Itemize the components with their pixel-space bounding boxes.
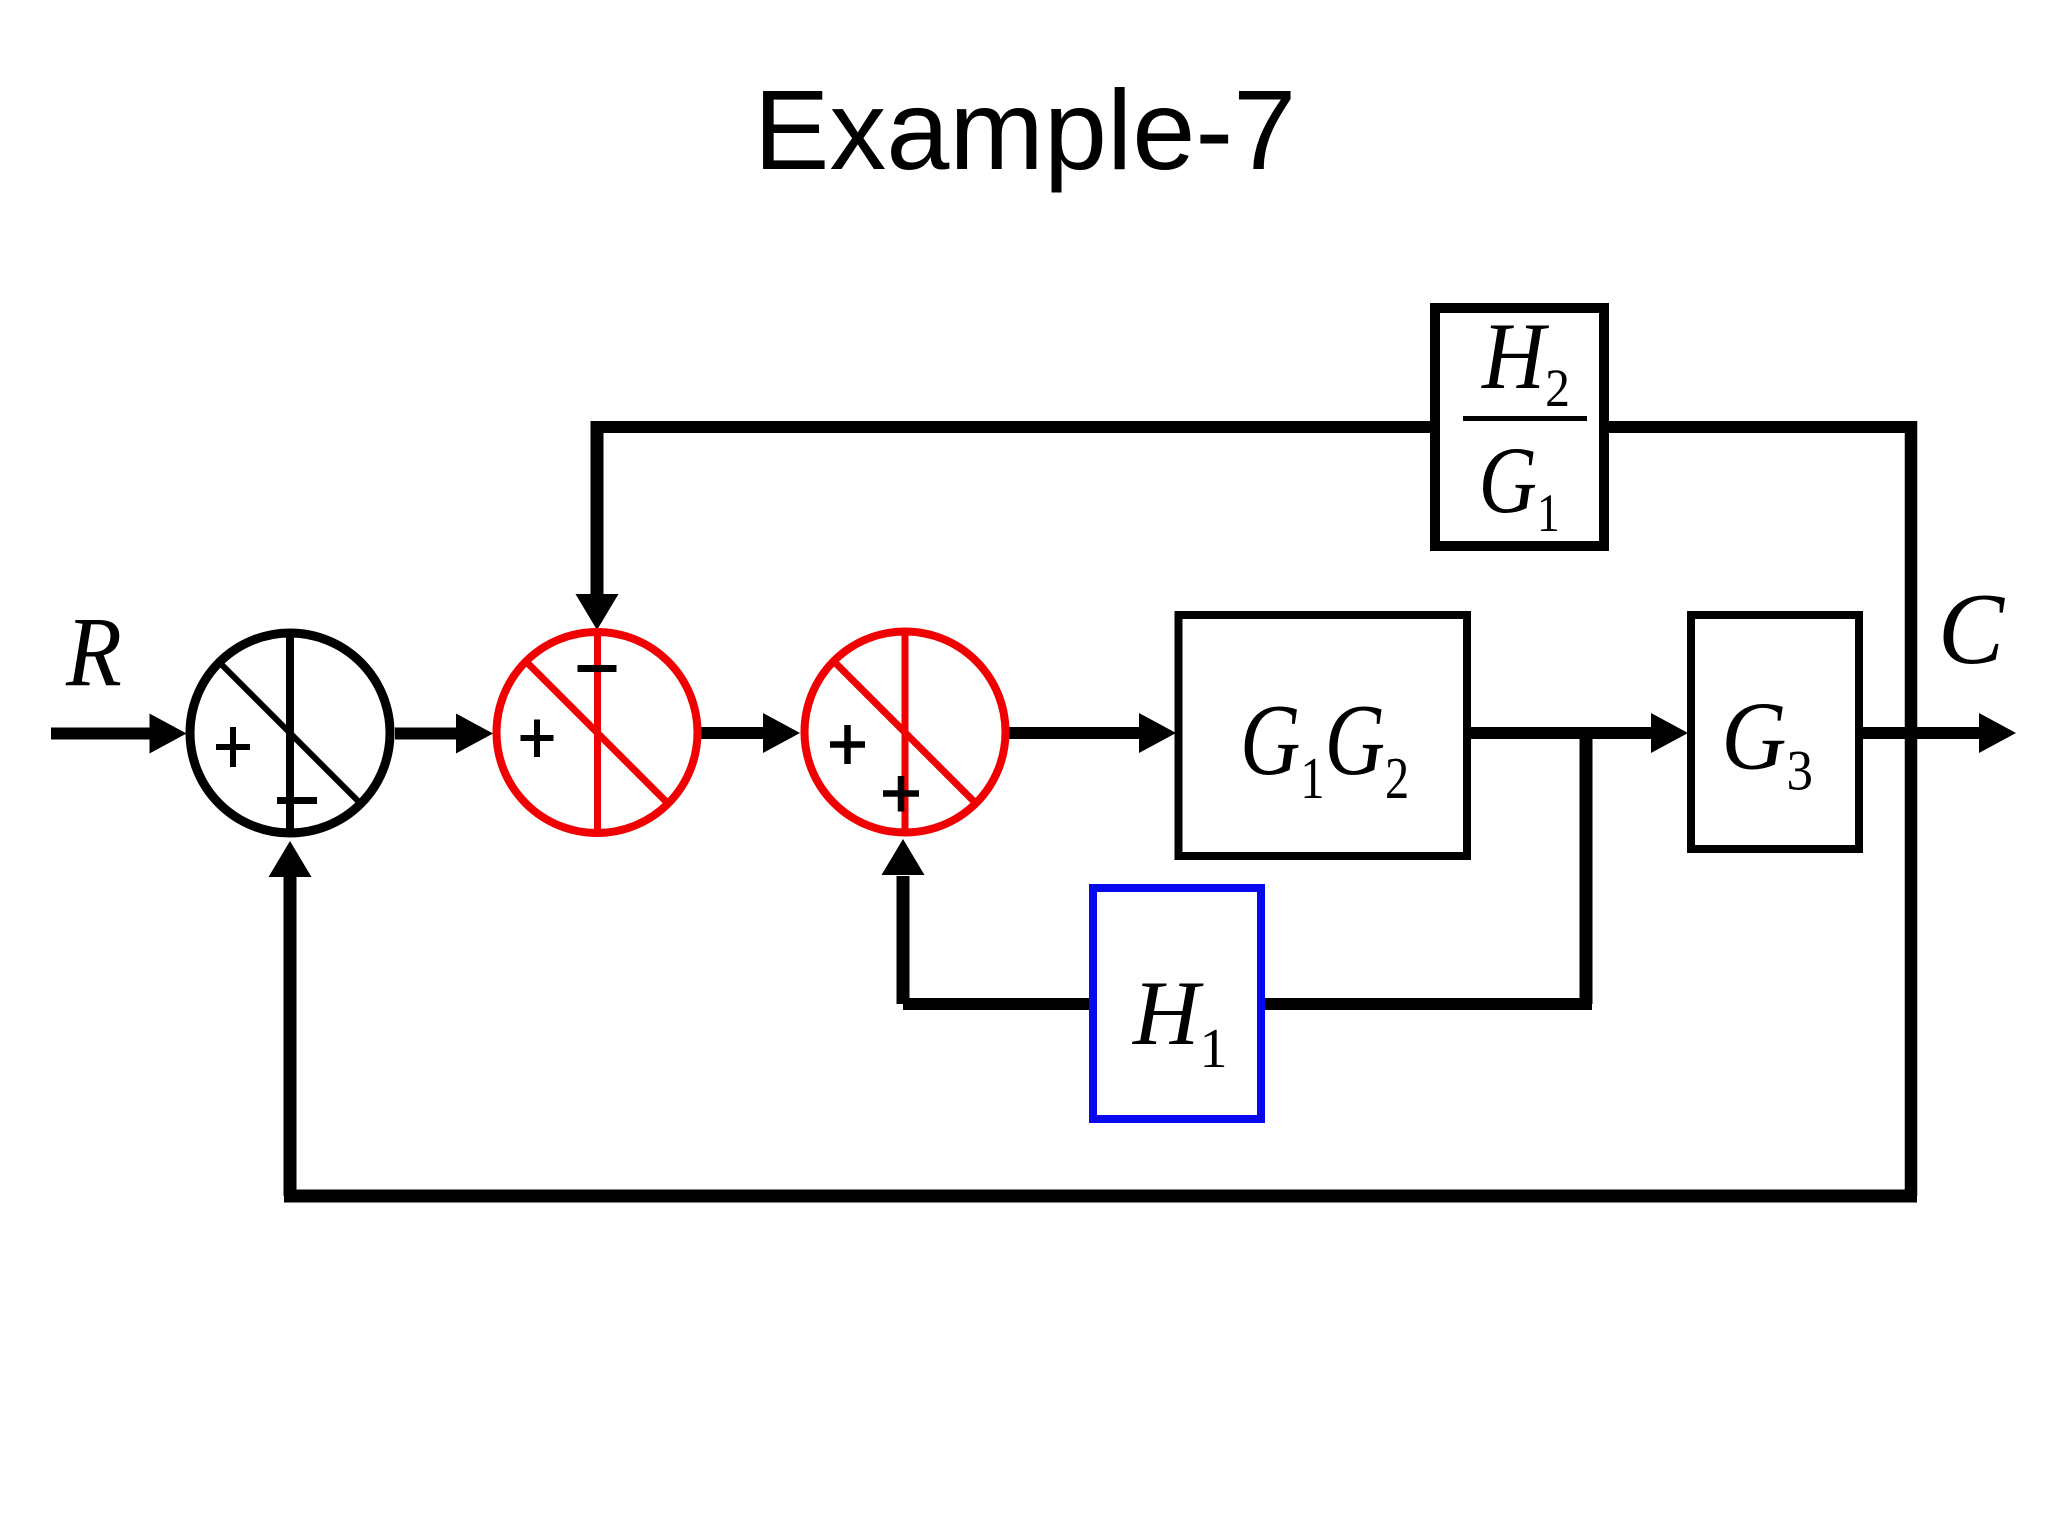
summer S1 (black) [190,629,390,837]
arrowhead into red summer 1 top [576,594,619,630]
wire: right vertical feedback line [1905,421,1918,1196]
node R label [65,596,122,707]
wire: bottom feedback horizontal [284,1190,1917,1203]
input arrow R [51,728,151,740]
summer S3 (red) [805,628,1006,836]
node C label [1938,572,2005,686]
svg-text:Example-7: Example-7 [754,67,1297,194]
wire: left vertical up to black summer [284,876,297,1196]
wire: vertical up into red summer 2 [897,876,910,1004]
block H2/G1 [1435,304,1604,546]
svg-text:C: C [1938,572,2005,686]
arrowhead into red summer 2 bottom [882,839,925,875]
arrowhead into black summer bottom [269,841,312,877]
wire: H1 feedback horizontal [903,998,1592,1010]
block H1 (blue) [1093,888,1261,1119]
block G1G2 [1179,615,1468,856]
svg-text:R: R [65,596,122,707]
wire: black summer to red summer 1 [395,728,457,740]
wire: top feedback horizontal through H2/G1 [591,421,1911,433]
wire: red summer 2 to G1G2 [1009,727,1141,739]
wire: H1 branch vertical from main line [1580,733,1593,1004]
wire: vertical drop into red summer 1 [591,421,604,596]
summer S2 (red) [497,629,698,837]
wire: red summer 1 to red summer 2 [701,727,765,739]
output arrow C [1863,727,1981,739]
wire: G1G2 to G3 [1471,727,1653,739]
block G3 [1691,615,1859,849]
svg-text:G1G2: G1G2 [1240,684,1409,811]
